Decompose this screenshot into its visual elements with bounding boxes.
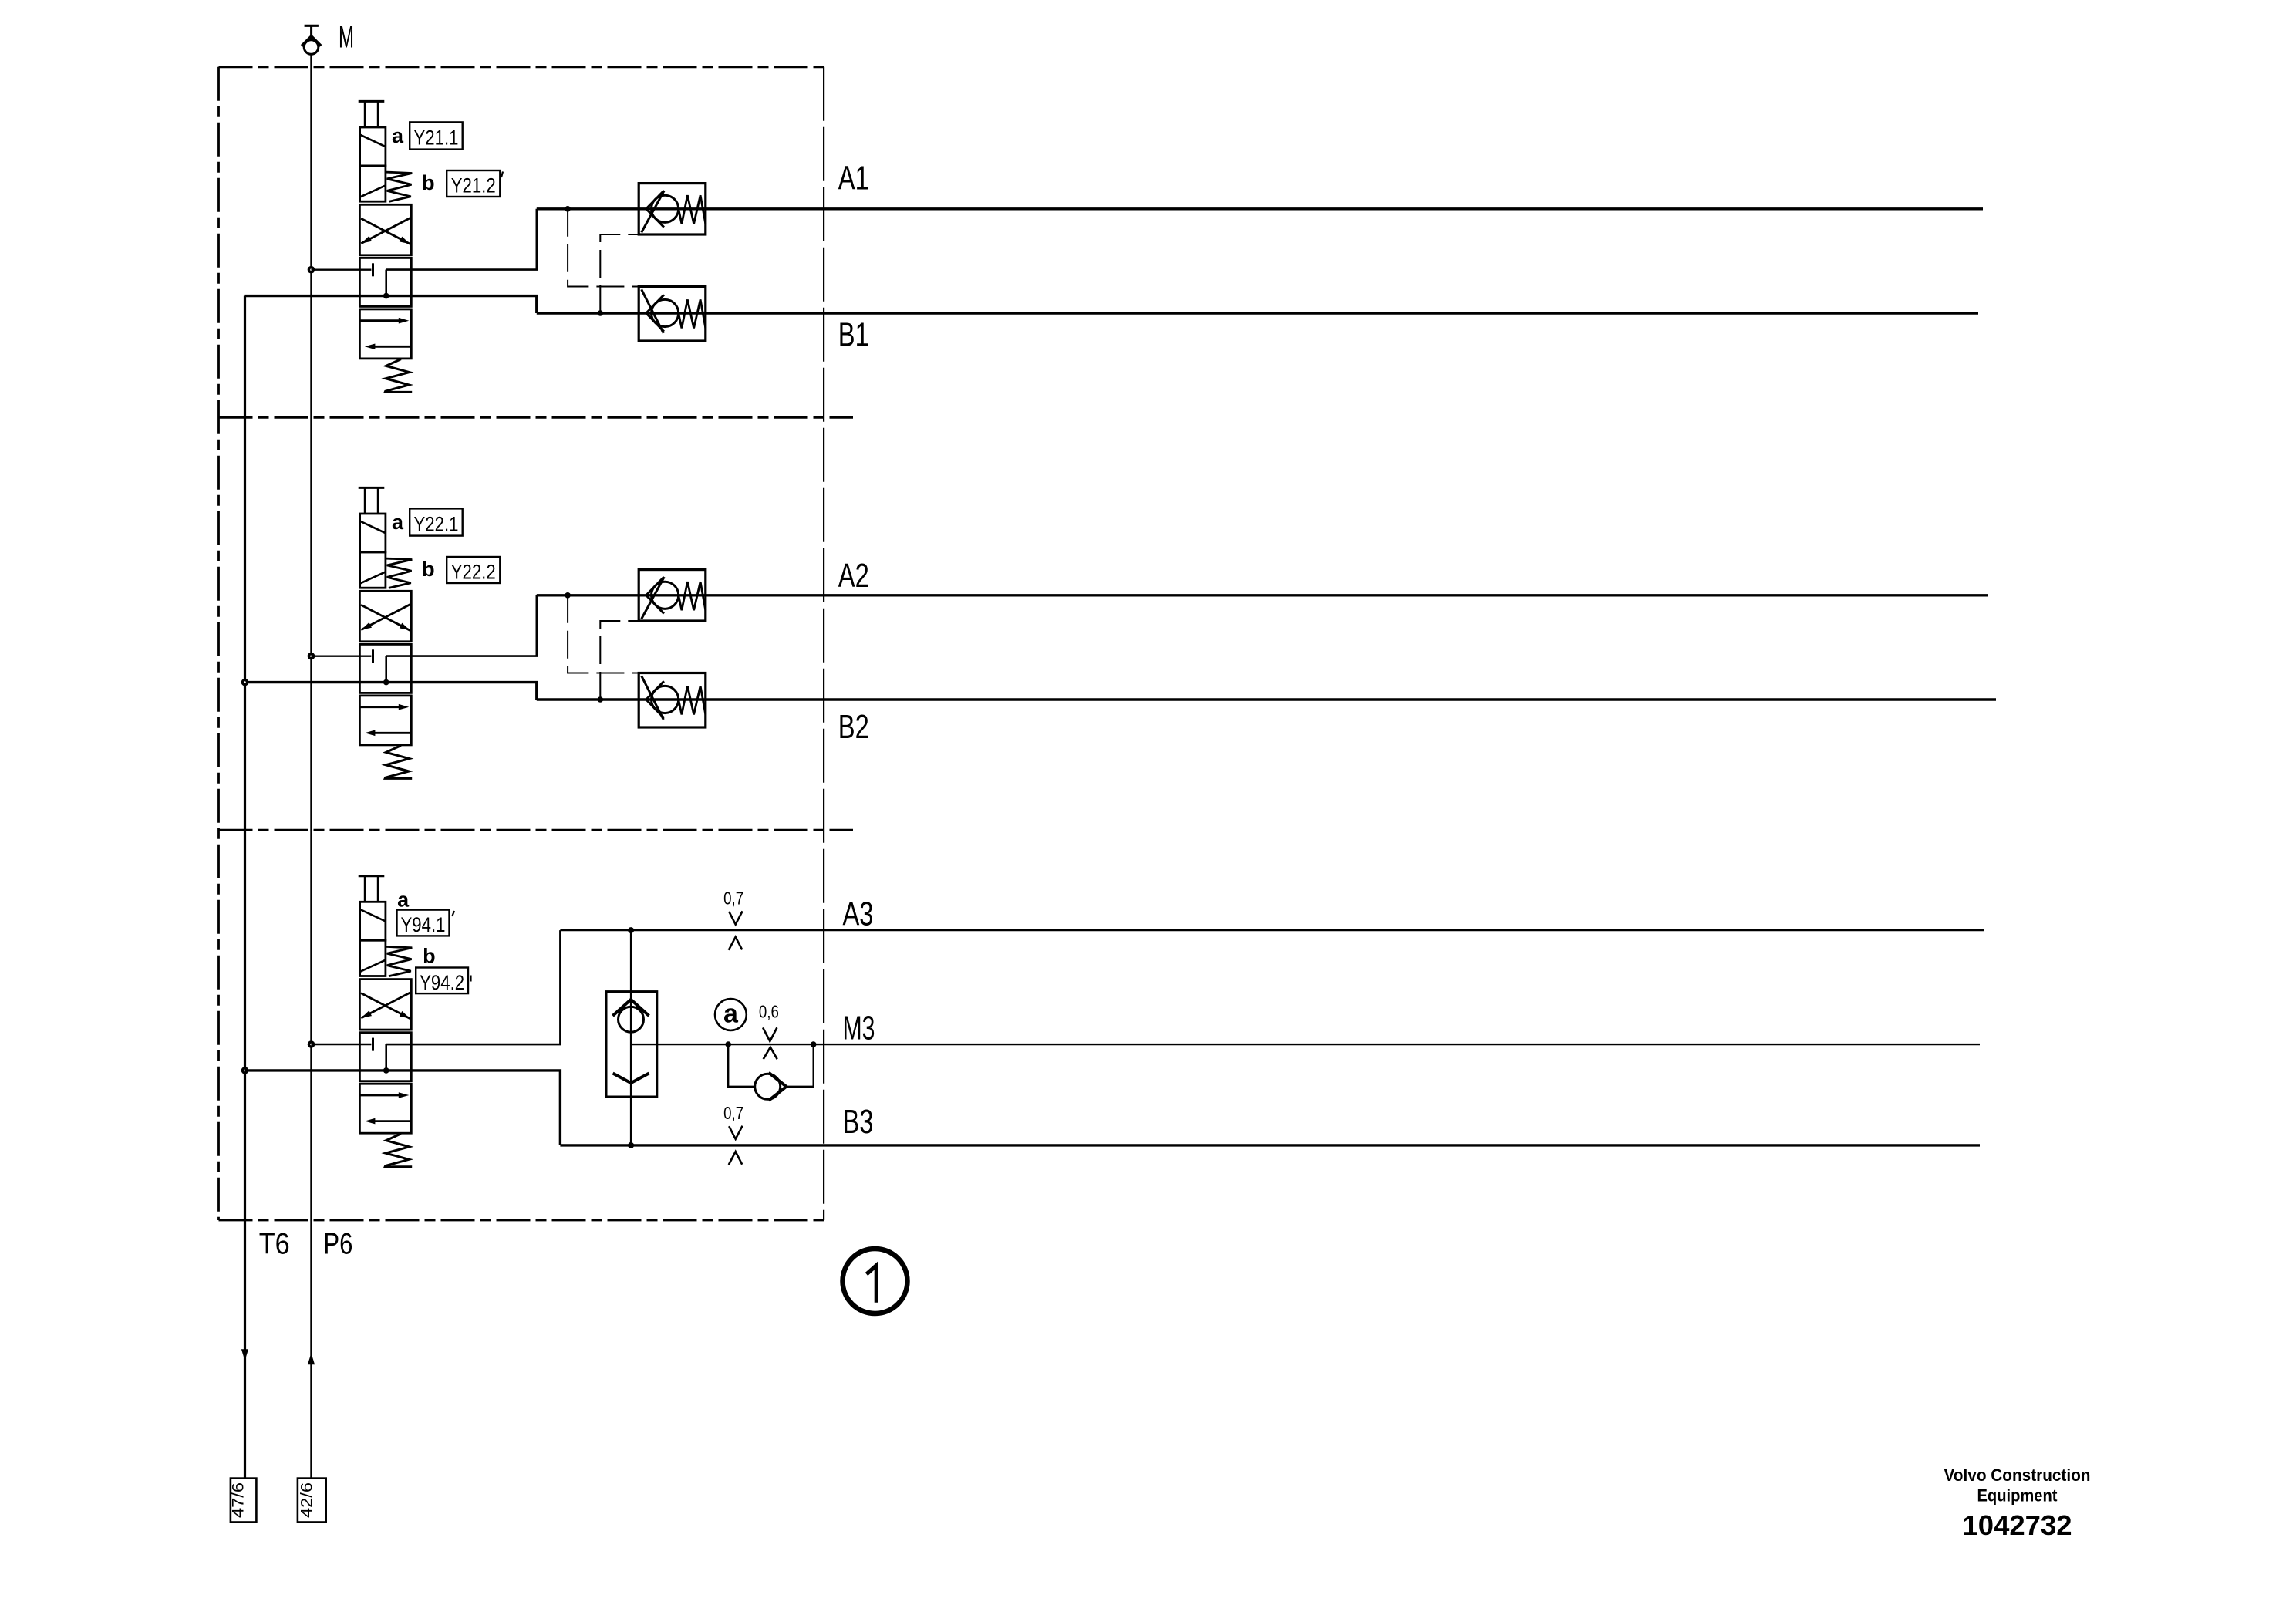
wire A from valve to step section <box>386 209 537 270</box>
measuring port M symbol <box>302 25 321 54</box>
svg-text:42/6: 42/6 <box>298 1482 315 1518</box>
circled label a <box>715 999 747 1030</box>
svg-text:Volvo Construction: Volvo Construction <box>1944 1465 2091 1485</box>
wire T6 tank vertical <box>244 296 246 1479</box>
counterbalance valve on B1 <box>639 287 706 342</box>
junction T6 to section 2 tank line <box>241 679 249 686</box>
junction pilot on B1 <box>598 310 604 316</box>
valve position box parallel arrows <box>359 1084 411 1133</box>
orifice marks on B3 (0,7) <box>729 1126 743 1165</box>
svg-text:0,7: 0,7 <box>723 889 743 909</box>
junction A3 to shuttle <box>628 927 634 933</box>
counterbalance valve on A2 <box>639 570 706 621</box>
valve return spring <box>385 746 412 779</box>
valve Y21 manual override pin <box>359 101 385 127</box>
solenoid designator box Y22.1 <box>410 508 463 535</box>
svg-text:B1: B1 <box>838 315 869 353</box>
tick mark artifact <box>452 911 454 916</box>
svg-text:b: b <box>423 945 436 968</box>
junction M3 bypass left <box>725 1041 731 1047</box>
valve center position box <box>359 644 411 693</box>
svg-text:1042732: 1042732 <box>1963 1509 2072 1541</box>
junction P6 to section 2 <box>308 653 315 660</box>
section divider 1 dash-dot <box>219 416 854 419</box>
svg-text:P6: P6 <box>323 1227 352 1260</box>
connector box 47/6 <box>230 1479 257 1523</box>
valve center position box <box>359 258 411 306</box>
junction pilot on A1 <box>565 206 571 212</box>
wire work line M3 <box>631 1044 1980 1045</box>
junction pilot on B2 <box>598 696 604 703</box>
svg-text:a: a <box>392 511 404 534</box>
counterbalance valve on A1 <box>639 184 706 234</box>
valve position box crossed arrows <box>359 980 411 1030</box>
svg-text:A3: A3 <box>843 895 874 932</box>
pilot line from A1 to lower counterbalance <box>568 209 639 287</box>
throttle X on M3 <box>763 1027 777 1059</box>
valve position box crossed arrows <box>359 591 411 642</box>
pilot line from B2 to upper counterbalance <box>600 621 639 700</box>
valve position box parallel arrows <box>359 309 411 359</box>
solenoid designator box Y94.1 <box>397 910 450 936</box>
solenoid b box (Y22.2) <box>360 552 386 588</box>
connector box 42/6 <box>298 1479 326 1523</box>
pilot line from A2 to lower counterbalance <box>568 595 639 673</box>
svg-text:b: b <box>422 171 435 194</box>
bypass check valve <box>755 1073 787 1101</box>
junction B3 to shuttle <box>628 1142 634 1148</box>
wire work line B1 <box>537 312 1978 314</box>
wire P feed into valve section 1 <box>312 269 372 271</box>
wire P6 supply vertical from M <box>310 54 312 1478</box>
wire tank/B line from T6 through valve <box>245 683 537 700</box>
wire work line B2 <box>537 698 1996 700</box>
wire P feed into valve section 2 <box>312 656 372 657</box>
svg-text:Y22.1: Y22.1 <box>414 513 459 536</box>
solenoid a box (Y94.1) <box>360 902 386 940</box>
valve Y94 manual override pin <box>359 876 385 902</box>
arrow up on P6 line <box>308 1353 315 1364</box>
solenoid designator box Y21.2 <box>447 170 500 197</box>
svg-text:Equipment: Equipment <box>1977 1486 2058 1506</box>
svg-text:T6: T6 <box>259 1227 290 1260</box>
spring beside solenoid b <box>386 946 413 976</box>
circled sheet number 1 <box>843 1249 908 1313</box>
junction bypass to tank in center position <box>383 679 389 686</box>
solenoid b box (Y21.2) <box>360 166 386 201</box>
tick mark artifact <box>470 976 471 982</box>
tick mark artifact <box>501 172 503 178</box>
svg-text:0,6: 0,6 <box>759 1001 779 1021</box>
junction T6 to section 3 tank line <box>241 1067 249 1074</box>
svg-text:a: a <box>723 999 739 1028</box>
wire work line A1 <box>537 207 1983 210</box>
solenoid a box (Y22.1) <box>360 514 386 552</box>
svg-text:Y21.2: Y21.2 <box>451 174 496 197</box>
pilot line from B1 to upper counterbalance <box>600 234 639 313</box>
svg-text:Y94.2: Y94.2 <box>420 971 464 994</box>
junction bypass to tank in center position <box>383 1067 389 1074</box>
dual check valve box <box>606 992 657 1097</box>
valve return spring <box>385 359 412 393</box>
valve position box parallel arrows <box>359 696 411 745</box>
svg-text:47/6: 47/6 <box>230 1482 248 1518</box>
junction bypass to tank in center position <box>383 293 389 299</box>
valve position box crossed arrows <box>359 204 411 255</box>
wire work line A3 <box>560 929 1984 931</box>
svg-text:Y21.1: Y21.1 <box>414 126 459 150</box>
wire work line A2 <box>537 594 1988 596</box>
junction P6 to section 1 <box>308 266 315 274</box>
spring beside solenoid b <box>386 558 413 588</box>
solenoid designator box Y94.2 <box>416 968 468 994</box>
valve Y22 manual override pin <box>359 487 385 514</box>
valve return spring <box>385 1134 412 1167</box>
manifold block dashed right boundary <box>823 67 824 1220</box>
spring beside solenoid b <box>386 172 413 201</box>
solenoid designator box Y21.1 <box>410 122 463 149</box>
svg-text:B3: B3 <box>843 1103 874 1141</box>
junction pilot on A2 <box>565 592 571 599</box>
svg-text:Y94.1: Y94.1 <box>401 913 446 936</box>
wire shuttle vertical A3 to B3 <box>630 930 632 1145</box>
svg-text:a: a <box>392 124 404 147</box>
junction M3 bypass right <box>811 1041 817 1047</box>
manifold block dash-dot border top <box>219 66 824 68</box>
counterbalance valve on B2 <box>639 673 706 728</box>
solenoid b box (Y94.2) <box>360 940 386 976</box>
wire P feed into valve section 3 <box>312 1044 372 1045</box>
valve center position box <box>359 1033 411 1081</box>
solenoid a box (Y21.1) <box>360 127 386 166</box>
orifice marks on A3 (0,7) <box>729 911 743 949</box>
wire work line B3 <box>560 1144 1980 1146</box>
svg-text:A1: A1 <box>838 160 869 197</box>
svg-text:a: a <box>397 888 410 911</box>
wire A from valve to step section 3 <box>386 930 561 1044</box>
manifold block dash-dot border left <box>217 67 220 1220</box>
wire A from valve to step section <box>386 595 537 656</box>
svg-text:b: b <box>422 558 435 581</box>
svg-text:B2: B2 <box>838 708 869 746</box>
arrow down on T6 line <box>241 1349 248 1361</box>
wire tank/B line section 3 <box>245 1071 561 1145</box>
wire tank/B line from T6 through valve <box>245 296 537 313</box>
svg-text:M: M <box>339 20 354 54</box>
section divider 2 dash-dot <box>219 829 854 831</box>
junction T6 corner section 1 <box>0 0 1 1</box>
solenoid designator box Y22.2 <box>447 557 500 584</box>
svg-text:0,7: 0,7 <box>723 1103 743 1123</box>
svg-text:M3: M3 <box>843 1010 875 1047</box>
bypass check valve line <box>728 1044 813 1087</box>
manifold block dash-dot border bottom <box>219 1219 824 1222</box>
svg-text:Y22.2: Y22.2 <box>451 561 496 584</box>
junction P6 to section 3 <box>308 1040 315 1048</box>
svg-text:A2: A2 <box>838 557 869 595</box>
